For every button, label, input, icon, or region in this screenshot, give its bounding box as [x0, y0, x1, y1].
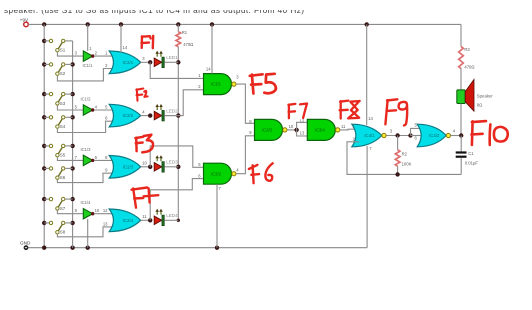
svg-text:10: 10: [95, 208, 100, 213]
switch S4: [42, 115, 116, 132]
svg-text:S1: S1: [60, 48, 66, 53]
annotation F7: [288, 104, 307, 119]
resistor R1: [176, 24, 193, 62]
svg-text:Speaker: Speaker: [477, 94, 494, 99]
wire channel 3 to IC3: [150, 146, 203, 167]
svg-text:S3: S3: [60, 101, 66, 106]
node ground junctions: [42, 246, 219, 250]
switch S3: [42, 92, 83, 110]
svg-text:+9V: +9V: [20, 17, 29, 22]
node switch bus junctions: [70, 62, 74, 225]
svg-text:R2: R2: [402, 151, 408, 156]
svg-text:LED4: LED4: [166, 213, 178, 218]
buffer IC1/2: [75, 96, 116, 115]
switch S6: [42, 166, 116, 182]
nand-gate IC3/2: [198, 136, 254, 184]
annotation F1: [141, 36, 153, 48]
svg-text:IC2/1: IC2/1: [123, 60, 134, 65]
wire LED bus: [177, 62, 179, 220]
svg-text:IC2/4: IC2/4: [123, 218, 134, 223]
svg-text:IC2/2: IC2/2: [123, 113, 134, 118]
svg-text:100K: 100K: [402, 161, 412, 166]
svg-text:13: 13: [103, 221, 108, 226]
led LED4: [148, 209, 178, 226]
wire IC3 Vss pin 7: [217, 184, 222, 248]
switch S7: [42, 197, 83, 214]
svg-text:IC3/4: IC3/4: [315, 128, 326, 133]
resistor R3: [459, 24, 475, 90]
annotation F8: [340, 101, 360, 119]
wire ground rail: [26, 247, 367, 249]
node LED bus junctions: [176, 60, 180, 222]
svg-text:10: 10: [142, 161, 147, 166]
svg-text:12: 12: [300, 119, 305, 124]
svg-text:14: 14: [123, 45, 128, 50]
nand-gate IC3/4: [300, 119, 359, 141]
annotation F2: [136, 89, 147, 101]
+9V terminal: [20, 17, 29, 26]
node rail junctions: [42, 22, 369, 26]
node output junction: [459, 133, 463, 137]
nand-gate IC3/1: [198, 73, 254, 124]
wire switch output bus: [72, 41, 74, 248]
svg-text:10: 10: [289, 124, 294, 129]
annotation F6: [249, 163, 273, 183]
buffer IC1/1: [75, 51, 116, 69]
resistor R2: [395, 133, 411, 176]
wire channel 2 to IC3: [164, 90, 203, 116]
svg-text:IC4/2: IC4/2: [429, 133, 440, 138]
buffer IC1/4: [75, 200, 116, 219]
wire IC3 Vdd pin 14: [206, 24, 212, 73]
svg-text:IC1/3: IC1/3: [80, 147, 91, 152]
svg-text:S5: S5: [60, 153, 66, 158]
svg-text:LED3: LED3: [166, 160, 178, 165]
svg-text:GND: GND: [20, 240, 31, 245]
led LED3: [148, 155, 178, 172]
svg-text:S7: S7: [60, 206, 66, 211]
wire feedback line: [347, 142, 461, 175]
annotation F9: [385, 99, 407, 125]
svg-text:IC3/2: IC3/2: [211, 171, 222, 176]
svg-text:R1: R1: [182, 30, 188, 35]
wire +9V switch bus: [43, 24, 45, 247]
or-gate IC2/1: [105, 51, 150, 74]
svg-text:C1: C1: [468, 151, 474, 156]
wire IC4 Vss pin 7: [367, 146, 372, 248]
svg-text:IC3/3: IC3/3: [262, 128, 273, 133]
svg-text:11: 11: [341, 124, 346, 129]
caption text (clipped at top edge): [0, 0, 532, 15]
nor-gate IC4/1: [352, 124, 411, 147]
led LED1: [148, 51, 178, 68]
led LED2: [148, 104, 178, 121]
or-gate IC2/4: [103, 208, 150, 232]
wire IC1 Vss pin 8: [87, 219, 89, 248]
svg-text:IC1/2: IC1/2: [80, 96, 91, 101]
wire IC4 Vdd pin 14: [367, 24, 374, 125]
wire channel 1 to IC3: [150, 62, 203, 78]
svg-text:IC1/4: IC1/4: [80, 200, 91, 205]
nor-gate IC4/2: [414, 122, 461, 146]
nand-gate IC3/3: [249, 119, 296, 140]
speaker LS1: [457, 79, 494, 135]
svg-text:IC2/3: IC2/3: [123, 164, 134, 169]
svg-text:470Ω: 470Ω: [464, 64, 474, 69]
wire +9V rail: [28, 23, 461, 25]
svg-text:0.01µF: 0.01µF: [465, 161, 479, 166]
switch S8: [42, 221, 116, 237]
or-gate IC2/3: [105, 155, 150, 178]
svg-text:LED2: LED2: [166, 108, 178, 113]
node IC3/3 output junction: [294, 122, 307, 136]
svg-text:LED1: LED1: [166, 55, 178, 60]
wire channel 4 to IC3: [150, 179, 203, 221]
buffer IC1/3: [75, 147, 116, 166]
annotation F5: [250, 74, 276, 94]
svg-text:470Ω: 470Ω: [183, 42, 193, 47]
svg-text:14: 14: [206, 67, 211, 72]
svg-text:S2: S2: [60, 71, 66, 76]
node IC4/2 input tie: [408, 128, 424, 137]
switch S5: [42, 144, 83, 161]
svg-text:11: 11: [142, 214, 147, 219]
or-gate IC2/2: [105, 104, 150, 127]
svg-text:S4: S4: [60, 124, 66, 129]
wire IC1 Vdd pin 1: [88, 24, 93, 51]
svg-text:8Ω: 8Ω: [477, 102, 483, 107]
svg-text:13: 13: [300, 130, 305, 135]
svg-text:IC3/1: IC3/1: [211, 82, 222, 87]
switch S1: [42, 39, 83, 56]
svg-text:R3: R3: [464, 47, 470, 52]
annotation F3: [135, 135, 153, 153]
svg-text:S8: S8: [60, 230, 66, 235]
svg-text:IC1/1: IC1/1: [82, 63, 93, 68]
capacitor C1: [456, 136, 479, 175]
svg-text:12: 12: [103, 208, 108, 213]
wire IC2 Vdd pin 14: [121, 24, 128, 52]
svg-text:S6: S6: [60, 175, 66, 180]
switch S2: [42, 62, 116, 81]
annotation F10: [471, 121, 507, 145]
svg-text:14: 14: [368, 116, 373, 121]
annotation F4: [132, 188, 159, 208]
svg-text:IC4/1: IC4/1: [364, 133, 375, 138]
ground terminal GND: [20, 240, 31, 250]
